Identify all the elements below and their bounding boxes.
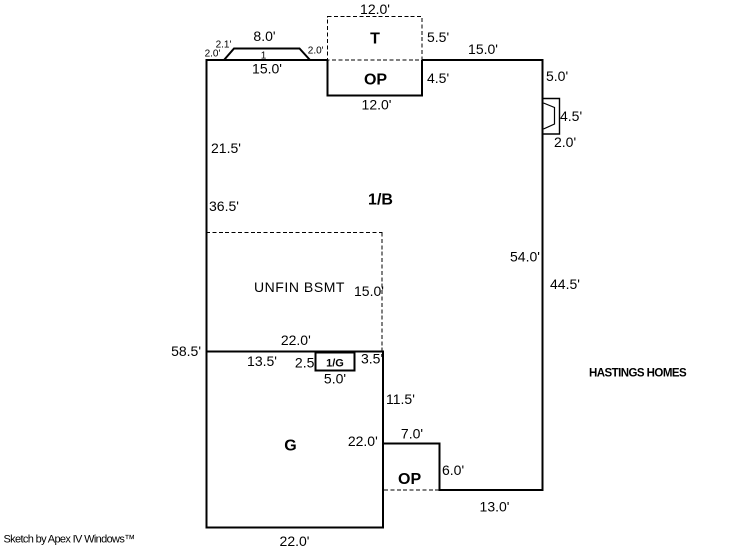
svg-text:22.0': 22.0' [281, 332, 311, 348]
svg-text:54.0': 54.0' [510, 249, 540, 265]
svg-text:8.0': 8.0' [253, 28, 275, 44]
open porch OP bottom right side [439, 444, 441, 492]
bay window trapezoid top left [224, 49, 310, 61]
wire bottom right wall [439, 489, 544, 491]
bay window right outer box [543, 99, 560, 135]
svg-text:7.0': 7.0' [401, 426, 423, 442]
svg-text:36.5': 36.5' [209, 198, 239, 214]
svg-text:12.0': 12.0' [362, 97, 392, 113]
svg-text:4.5': 4.5' [427, 70, 449, 86]
svg-text:13.5': 13.5' [247, 353, 277, 369]
svg-text:3.5': 3.5' [361, 351, 383, 367]
svg-text:1/B: 1/B [368, 192, 393, 209]
bay window right inner glass [544, 103, 555, 129]
svg-text:1/G: 1/G [326, 358, 344, 370]
wire left wall of house and garage [206, 59, 208, 528]
svg-text:OP: OP [364, 72, 387, 89]
open porch OP top [328, 60, 423, 96]
svg-text:5.0': 5.0' [546, 68, 568, 84]
dashed area T [328, 17, 423, 61]
wire top wall right segment [422, 59, 544, 61]
svg-text:15.0': 15.0' [468, 41, 498, 57]
svg-text:4.5': 4.5' [560, 108, 582, 124]
svg-text:5.0': 5.0' [324, 371, 346, 387]
svg-text:11.5': 11.5' [386, 391, 415, 407]
wire horizontal wall at garage top [206, 351, 385, 353]
svg-text:Sketch by Apex IV Windows™: Sketch by Apex IV Windows™ [4, 534, 135, 546]
svg-text:5.5': 5.5' [427, 29, 449, 45]
wire middle vertical wall garage right [382, 351, 384, 528]
svg-text:44.5': 44.5' [550, 276, 580, 292]
svg-text:OP: OP [398, 471, 421, 488]
svg-text:2.0': 2.0' [554, 134, 576, 150]
wire right wall [542, 59, 544, 490]
open porch OP bottom dashed open side [384, 489, 439, 491]
svg-text:G: G [284, 438, 296, 455]
open porch OP bottom top side [383, 443, 441, 445]
wire top wall left segment [206, 59, 328, 61]
svg-text:2.5': 2.5' [295, 355, 317, 371]
svg-text:2.0': 2.0' [205, 49, 221, 60]
dashed unfinished basement right [381, 233, 383, 352]
svg-text:22.0': 22.0' [348, 433, 378, 449]
svg-text:22.0': 22.0' [280, 533, 310, 547]
svg-text:12.0': 12.0' [360, 1, 390, 17]
svg-text:15.0': 15.0' [252, 61, 282, 77]
svg-text:21.5': 21.5' [211, 140, 241, 156]
svg-text:2.0': 2.0' [308, 46, 324, 57]
svg-text:58.5': 58.5' [171, 343, 201, 359]
svg-text:6.0': 6.0' [442, 462, 464, 478]
box 1/G [316, 353, 355, 371]
svg-text:T: T [370, 31, 380, 48]
svg-text:HASTINGS HOMES: HASTINGS HOMES [589, 368, 687, 380]
svg-text:13.0': 13.0' [480, 499, 510, 515]
svg-text:15.0': 15.0' [354, 283, 384, 299]
dashed unfinished basement top [206, 232, 383, 234]
svg-text:UNFIN BSMT: UNFIN BSMT [254, 279, 345, 295]
wire garage bottom wall [206, 527, 385, 529]
